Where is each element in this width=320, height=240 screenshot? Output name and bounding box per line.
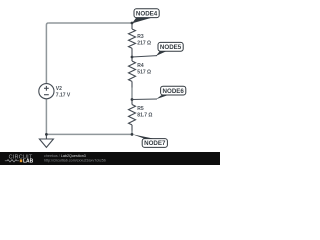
junction ground (45, 133, 48, 136)
wire: top horizontal to node4 (48, 22, 132, 24)
wire: top-left vertical from V2 up (46, 23, 48, 84)
wire: R5 bottom to node7 (131, 131, 133, 135)
footer logo zigzag (5, 160, 19, 162)
voltage source V2 (39, 84, 54, 99)
svg-text:NODE6: NODE6 (163, 88, 185, 95)
junction node7 (131, 133, 134, 136)
resistor R5 (129, 100, 136, 131)
node flag NODE5 (132, 42, 183, 57)
svg-text:R4: R4 (137, 63, 144, 69)
node flag NODE7 (132, 134, 167, 147)
wire: R4 bottom to node6 (131, 88, 133, 100)
junction node6 (131, 98, 134, 101)
svg-text:LAB: LAB (23, 159, 34, 165)
svg-text:NODE7: NODE7 (144, 140, 166, 147)
svg-text:7.17 V: 7.17 V (56, 93, 71, 99)
junction node4 (131, 22, 134, 25)
svg-text:517 Ω: 517 Ω (137, 70, 151, 76)
svg-text:R5: R5 (137, 106, 144, 112)
label R5 (137, 106, 152, 118)
svg-text:V2: V2 (56, 86, 62, 92)
svg-text:http://circuitlab.com/cxxu23ax: http://circuitlab.com/cxxu23axv7ckz5b (44, 158, 106, 162)
svg-text:R3: R3 (137, 34, 144, 40)
wire: bottom horizontal to node7 (46, 133, 132, 135)
label R3 (137, 34, 151, 46)
label V2 value (56, 86, 71, 98)
resistor R3 (129, 23, 136, 57)
resistor R4 (129, 57, 136, 88)
footer bar (0, 152, 220, 165)
svg-text:217 Ω: 217 Ω (137, 41, 151, 47)
svg-text:NODE4: NODE4 (136, 10, 158, 17)
svg-text:81.7 Ω: 81.7 Ω (137, 113, 152, 119)
wire: V2 bottom to ground junction (45, 99, 47, 134)
footer logo accent (20, 159, 22, 162)
node flag NODE6 (132, 86, 186, 99)
junction node5 (131, 56, 134, 59)
label R4 (137, 63, 151, 75)
ground (39, 134, 53, 147)
svg-text:NODE5: NODE5 (160, 44, 182, 51)
node flag NODE4 (132, 9, 159, 24)
